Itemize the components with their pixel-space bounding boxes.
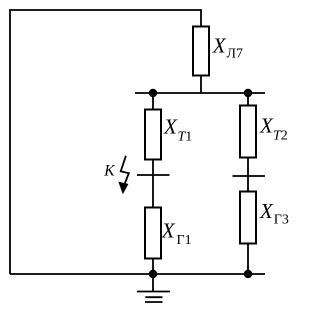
- svg-text:X: X: [259, 199, 274, 223]
- svg-text:X: X: [212, 34, 227, 58]
- wire XГ3 to bottom bus: [247, 244, 249, 275]
- wire XГ1 to bottom bus: [152, 259, 154, 275]
- ground: [137, 274, 170, 302]
- label XГ3: [259, 199, 289, 227]
- wire node A stub to XT1: [152, 93, 154, 110]
- wire top bus: [135, 92, 265, 94]
- wire XT1 to XГ1: [152, 160, 154, 208]
- reactor XЛ7: [193, 27, 209, 76]
- label XT2: [259, 113, 288, 143]
- svg-text:Л7: Л7: [227, 47, 244, 62]
- label XЛ7: [212, 34, 243, 62]
- wire from XЛ7 to top bus: [200, 76, 202, 94]
- svg-text:Г3: Г3: [274, 212, 289, 227]
- wire outer loop (left/top): [10, 10, 201, 274]
- label XГ1: [161, 218, 192, 248]
- svg-text:2: 2: [281, 128, 288, 143]
- reactance XГ3: [240, 192, 256, 244]
- svg-text:X: X: [161, 218, 176, 242]
- label XT1: [163, 114, 192, 144]
- reactance XT1: [145, 110, 161, 160]
- wire bottom bus: [10, 273, 265, 275]
- node D (bottom bus right junction): [244, 270, 252, 278]
- wire node B stub to XT2: [247, 93, 249, 106]
- lightning arrow at fault K: [118, 156, 129, 194]
- svg-text:X: X: [259, 113, 274, 137]
- wire XT2 to XГ3: [247, 158, 249, 192]
- svg-text:Г1: Г1: [177, 233, 192, 248]
- svg-text:K: K: [103, 163, 115, 180]
- svg-text:1: 1: [185, 129, 192, 144]
- svg-text:X: X: [163, 114, 178, 138]
- node C (bottom bus left junction): [149, 270, 157, 278]
- node B (top bus right junction): [244, 89, 252, 97]
- reactance XT2: [240, 106, 256, 158]
- fault dash K (left branch): [137, 174, 170, 176]
- fault dash (right branch): [233, 175, 266, 177]
- reactance XГ1: [145, 208, 161, 259]
- node A (top bus left junction): [149, 89, 157, 97]
